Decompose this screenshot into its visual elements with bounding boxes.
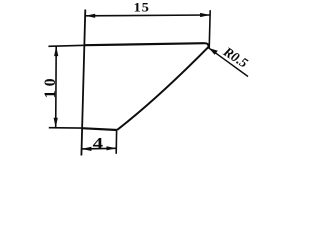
extension line right of dim 15 [209,10,210,49]
extension line bottom of dim 10 [49,127,82,129]
arrow right of dim 4 [107,146,117,150]
part outline: bottom edge [82,128,117,130]
extension line right of dim 4 [115,131,117,154]
dimension line 10 [55,46,58,128]
dimension line 4 [82,147,117,150]
svg-text:4: 4 [93,135,103,153]
dimension line 15 [85,14,210,17]
leader line of R0.5 [209,48,248,76]
arrow left of dim 4 [82,147,92,151]
part outline: top edge [85,43,205,45]
leader arrow of R0.5 [209,48,218,55]
arrow left of dim 15 [85,14,95,18]
part outline: slanted edge [117,47,209,130]
arrow right of dim 15 [200,13,210,17]
part outline: left edge + extension line of dims 15 and 4 [81,10,85,156]
arrow top of dim 10 [54,46,58,56]
arrow bottom of dim 10 [54,118,58,128]
part outline: rounded corner R0.5 [205,43,209,47]
extension line top of dim 10 [48,45,84,46]
svg-text:15: 15 [134,0,150,14]
